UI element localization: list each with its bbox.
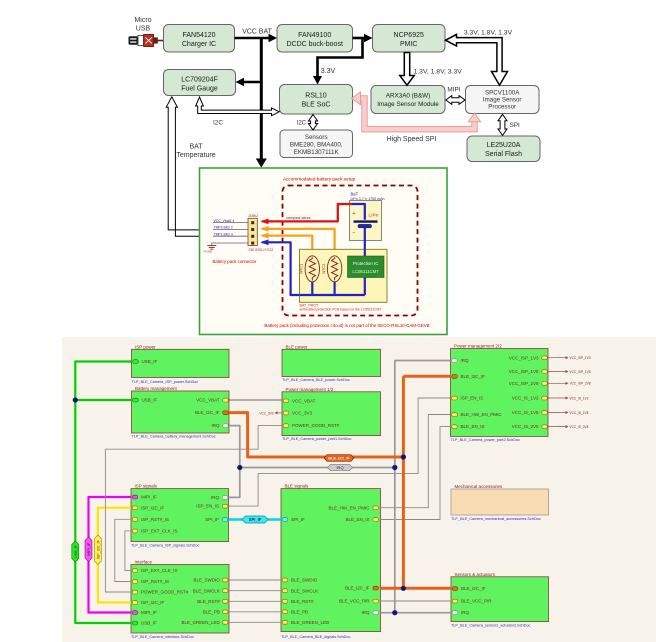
block FAN54120 Charger IC [164, 25, 235, 53]
label BAT_PROT [300, 303, 382, 311]
port BLE_RST# on BLE signals [282, 599, 314, 604]
svg-text:Fuel Gauge: Fuel Gauge [181, 86, 218, 93]
svg-text:Sensors & actuators: Sensors & actuators [455, 572, 496, 577]
svg-text:LC709204F: LC709204F [181, 77, 218, 84]
port IRQ on Battery management [211, 423, 228, 428]
net label hexagon IRQ [328, 464, 353, 470]
svg-text:Processor: Processor [488, 104, 516, 111]
svg-text:ISP_I2C_IF: ISP_I2C_IF [141, 505, 165, 510]
svg-text:LiPo: LiPo [369, 213, 379, 218]
port ISP_I2C_IF on Interface [132, 600, 164, 605]
svg-text:IRQ: IRQ [211, 495, 220, 500]
block LE25U20A Serial Flash [467, 136, 540, 162]
arrow FAN49100 to NCP6925 [353, 34, 373, 42]
svg-text:ISP_I2C_IF: ISP_I2C_IF [141, 600, 165, 605]
block RSL10 BLE SoC [280, 85, 353, 115]
block LC709204F Fuel Gauge [164, 70, 236, 96]
net label hexagon SPI_IF [242, 516, 268, 523]
svg-text:1.3V, 1.8V, 3.3V: 1.3V, 1.8V, 3.3V [414, 69, 463, 76]
port VCC_VBAT on Power management 1/2 [283, 398, 315, 403]
svg-text:embedded protection PCB based: embedded protection PCB based on the LC0… [300, 308, 382, 312]
battery pack outer green box [200, 168, 448, 335]
svg-text:BLE_VCC_PIR: BLE_VCC_PIR [339, 599, 370, 604]
svg-text:Power management 2/2: Power management 2/2 [454, 344, 502, 349]
port BLE_EN_IS on Power management 2/2 [452, 424, 485, 429]
svg-text:BLE SoC: BLE SoC [302, 102, 331, 109]
pink arrow High Speed SPI [352, 92, 481, 129]
port VCC_ISP_2V8 on Power management 2/2 [509, 381, 548, 386]
junction dot BLE_I2C_IF bottom [401, 586, 406, 591]
wire ISP_EN_IS [229, 398, 451, 506]
sheet symbol BLE signals [281, 484, 381, 639]
svg-text:VCC_VBAT: VCC_VBAT [292, 398, 316, 403]
orange wire thermistor NTC1 [260, 233, 312, 256]
svg-text:ISP_EXT_CLK_IS: ISP_EXT_CLK_IS [141, 568, 178, 573]
port IRQ on Sensors and actuators [452, 610, 469, 615]
svg-text:MIPI_IF: MIPI_IF [87, 542, 91, 556]
dashed battery pack boundary [283, 186, 418, 316]
svg-text:BLE power: BLE power [286, 344, 309, 349]
svg-text:VCC_ISP_1V3: VCC_ISP_1V3 [509, 355, 539, 360]
svg-text:PGND: PGND [204, 250, 214, 254]
svg-text:VCC_ISP_2V8: VCC_ISP_2V8 [509, 381, 539, 386]
wire IRQ main vertical [394, 361, 396, 613]
port USB_IF on ISP power [133, 359, 158, 364]
svg-text:TMP1 BK2 3: TMP1 BK2 3 [214, 233, 233, 237]
svg-text:VCC_IS_1V8: VCC_IS_1V8 [512, 410, 539, 415]
svg-text:BLE_SWCLK: BLE_SWCLK [291, 588, 318, 593]
svg-text:LC05111CMT: LC05111CMT [352, 269, 379, 274]
micro USB connector icon [129, 34, 158, 46]
wire USB to charger [158, 40, 164, 42]
svg-text:ARX3A0 (B&W): ARX3A0 (B&W) [386, 93, 430, 100]
svg-text:IRQ: IRQ [461, 358, 470, 363]
svg-text:TLP_BLE_Camera_interface.SchDo: TLP_BLE_Camera_interface.SchDoc [131, 635, 194, 639]
svg-text:EKMB1307111K: EKMB1307111K [294, 149, 340, 156]
power net flag VCC_ISP_1V3 [548, 356, 591, 360]
port BLE_I2C_IF on Power management 2/2 [452, 374, 486, 379]
svg-text:+: + [353, 211, 356, 217]
wire BLE_EN_IS [381, 427, 451, 520]
svg-text:MIPI_IF: MIPI_IF [141, 610, 157, 615]
block NCP6925 PMIC [373, 25, 446, 53]
svg-text:BLE signals: BLE signals [285, 484, 310, 489]
arrow into fuel gauge [236, 78, 262, 86]
net stub wire pin1 [213, 222, 248, 224]
port IRQ on ISP signals [211, 495, 228, 500]
svg-text:BLE_PB: BLE_PB [291, 610, 308, 615]
svg-text:ISP power: ISP power [135, 344, 156, 349]
svg-text:TLP_BLE_Camera_ISP_signals.Sch: TLP_BLE_Camera_ISP_signals.SchDoc [131, 543, 199, 547]
svg-text:FAN49100: FAN49100 [298, 32, 331, 39]
svg-text:MIPI_IF: MIPI_IF [141, 495, 157, 500]
svg-text:TLP_BLE_Camera_power_part1.Sch: TLP_BLE_Camera_power_part1.SchDoc [282, 437, 352, 441]
svg-text:NCP6925: NCP6925 [394, 32, 424, 39]
svg-text:Image Sensor Module: Image Sensor Module [377, 101, 439, 108]
block FAN49100 DCDC buck-boost [277, 25, 353, 53]
battery pack connector J1BK2 [248, 214, 273, 252]
svg-text:TLP_BLE_Camera_mechanical_acce: TLP_BLE_Camera_mechanical_accessories.Sc… [451, 517, 541, 521]
junction dot IRQ bus left [237, 465, 242, 470]
svg-text:NTC1: NTC1 [299, 264, 304, 274]
svg-text:Image Sensor: Image Sensor [483, 97, 522, 104]
wire BLE_I2C_IF bottom row [381, 587, 452, 590]
hollow arrow SPI [498, 114, 507, 135]
protection IC LC05111CMT [348, 256, 385, 278]
port POWER_GOOD_RST# on Power management 1/2 [283, 423, 340, 428]
svg-text:POWER_GOOD_RST#: POWER_GOOD_RST# [141, 590, 189, 595]
svg-text:Serial Flash: Serial Flash [485, 151, 522, 158]
junction dot BLE_I2C_IF mid [401, 454, 406, 459]
svg-text:3.3V: 3.3V [321, 68, 336, 75]
block Sensors BME280 BMA400 EKMB1307111K [280, 130, 353, 158]
svg-text:DCDC buck-boost: DCDC buck-boost [286, 41, 342, 48]
svg-text:TLP_BLE_Camera_ISP_power.SchDo: TLP_BLE_Camera_ISP_power.SchDoc [132, 380, 199, 384]
arrow VCC BAT into battery pack [256, 159, 267, 168]
blue wire battery negative return [260, 239, 300, 295]
svg-text:ISP_EXT_CLK_IS: ISP_EXT_CLK_IS [141, 529, 178, 534]
port SPI_IF on BLE signals [282, 517, 305, 522]
wire BLE_I2C_IF orange main vertical [402, 376, 405, 588]
net label hexagon ISP_I2C_IF [94, 535, 101, 565]
ground symbol PGND [204, 246, 217, 254]
svg-text:VCC_3V3: VCC_3V3 [259, 411, 273, 415]
hollow arrow MIPI [446, 96, 465, 105]
block ARX3A0 Image Sensor Module [371, 86, 445, 114]
sheet symbol Mechanical accessories [451, 484, 549, 521]
wire BLE_I2C_IF orange riser from battery management [229, 413, 403, 457]
svg-text:BaT: BaT [351, 191, 359, 196]
svg-text:VCC_ISP_2V8: VCC_ISP_2V8 [570, 382, 591, 386]
wire BLE_PB [229, 611, 281, 613]
hollow arrow I2C RSL10 to Sensors [308, 115, 317, 131]
svg-text:High Speed SPI: High Speed SPI [387, 136, 437, 143]
port VCC_IS_1V2 on Power management 2/2 [512, 396, 548, 401]
junction dot IRQ bus right [392, 465, 397, 470]
svg-text:BLE_GREEN_LED: BLE_GREEN_LED [291, 620, 330, 625]
block SPCV1100A Image Sensor Processor [466, 86, 540, 114]
port BLE_PB on Interface [203, 610, 228, 615]
wire SPI_IF cyan bus [229, 518, 282, 521]
svg-text:Sensors: Sensors [305, 134, 328, 141]
protection circuit yellow board [300, 249, 388, 302]
battery negative stem wire [364, 228, 366, 250]
svg-text:Battery management: Battery management [135, 386, 178, 391]
svg-text:Micro: Micro [134, 17, 151, 24]
svg-text:S50 8981LF/S22: S50 8981LF/S22 [249, 248, 274, 252]
svg-text:I2C: I2C [213, 120, 223, 127]
port ISP_EN_IS on Power management 2/2 [452, 396, 484, 401]
svg-text:BLE_RST#: BLE_RST# [291, 599, 314, 604]
svg-text:LE25U20A: LE25U20A [487, 142, 521, 149]
svg-text:I2C: I2C [297, 121, 307, 127]
svg-text:VCC_3V3: VCC_3V3 [292, 411, 313, 416]
battery cell box [350, 201, 382, 241]
svg-text:BLE_HW_EN_PMIC: BLE_HW_EN_PMIC [328, 505, 370, 510]
svg-text:Mechanical accessories: Mechanical accessories [455, 484, 504, 489]
svg-text:IRQ: IRQ [336, 465, 343, 470]
port BLE_PB on BLE signals [282, 610, 308, 615]
svg-text:BLE_SWDIO: BLE_SWDIO [194, 578, 221, 583]
port BLE_SWCLK on BLE signals [282, 588, 318, 593]
svg-text:BLE_EN_IS: BLE_EN_IS [461, 424, 485, 429]
wire IRQ battery management riser [229, 426, 240, 498]
net label hexagon BLE_I2C_IF [324, 455, 354, 462]
svg-text:Power management 1/2: Power management 1/2 [286, 387, 334, 392]
svg-text:TLP_BLE_Camera_power_part2.Sch: TLP_BLE_Camera_power_part2.SchDoc [451, 438, 521, 442]
svg-text:Battery pack connector: Battery pack connector [213, 259, 258, 264]
wire ISP_RST#_IS [115, 519, 131, 581]
junction dot USB_IF [73, 397, 78, 402]
svg-text:Temperature: Temperature [176, 152, 215, 159]
power net flag VCC_IS_2V8 [548, 425, 589, 429]
svg-text:VCC_IS_2V8: VCC_IS_2V8 [570, 425, 589, 429]
svg-text:J1BK2: J1BK2 [248, 214, 258, 218]
power net flag VCC_IS_1V8 [548, 411, 589, 415]
svg-text:BLE_SWDIO: BLE_SWDIO [291, 578, 318, 583]
port ISP_RST#_IS on ISP signals [132, 517, 169, 522]
wire BLE_VCC_PIR [381, 600, 452, 602]
wire BLE_RST# [229, 600, 281, 602]
svg-text:TMP2 BK2 2: TMP2 BK2 2 [214, 226, 233, 230]
svg-text:TLP_BLE_Camera_battery_managem: TLP_BLE_Camera_battery_management.SchDoc [132, 435, 216, 439]
port BLE_RST# on Interface [197, 599, 228, 604]
svg-text:Battery pack (including protec: Battery pack (including protection circu… [264, 323, 429, 328]
port BLE_HW_EN_PMIC on BLE signals [328, 505, 378, 510]
port VCC_ISP_1V8 on Power management 2/2 [509, 369, 548, 374]
port SPI_IF on ISP signals [205, 517, 228, 522]
wire IRQ bottom row [381, 612, 452, 614]
svg-text:USB_IF: USB_IF [142, 359, 158, 364]
svg-text:ISP_RST#_IS: ISP_RST#_IS [141, 579, 169, 584]
junction dot IRQ bottom [392, 610, 397, 615]
sheet symbol Sensors and actuators [451, 572, 549, 628]
svg-text:VCC_IS_2V8: VCC_IS_2V8 [512, 424, 539, 429]
svg-text:ISP signals: ISP signals [135, 484, 158, 489]
svg-text:VCC_ISP_1V3: VCC_ISP_1V3 [570, 356, 591, 360]
svg-text:Interface: Interface [135, 560, 153, 565]
port ISP_I2C_IF on ISP signals [132, 505, 164, 510]
svg-text:crimped wires: crimped wires [286, 215, 311, 220]
power net flag VCC_ISP_2V8 [548, 382, 591, 386]
svg-text:USB_IF: USB_IF [74, 544, 78, 558]
svg-text:VCC_IS_1V2: VCC_IS_1V2 [512, 396, 539, 401]
svg-text:VCC_VBAT: VCC_VBAT [196, 398, 220, 403]
svg-text:SPI_IF: SPI_IF [205, 517, 219, 522]
hollow arrow BAT temperature [166, 97, 201, 237]
power net flag VCC_ISP_1V8 [548, 370, 591, 374]
svg-text:VCC_IS_1V8: VCC_IS_1V8 [570, 411, 589, 415]
wire BLE_GREEN_LED [229, 621, 281, 623]
sheet symbol ISP signals [131, 484, 229, 548]
sheet symbol Power management 2/2 [451, 344, 549, 443]
wire battery negative inside protection board [364, 249, 366, 295]
wire MIPI_IF magenta bus [89, 497, 132, 613]
svg-text:−: − [353, 231, 356, 237]
wire USB_IF branch to battery management [75, 399, 131, 401]
port VCC_3V3 on Power management 1/2 [283, 411, 312, 416]
NTC1 bottom stem wire [311, 282, 313, 295]
label Micro USB [134, 17, 151, 33]
port BLE_GREEN_LED on BLE signals [282, 620, 330, 625]
net label stub VCC_3V3 [259, 411, 282, 415]
thermistor NTC1 [299, 256, 320, 282]
svg-text:SPI_IF: SPI_IF [249, 517, 262, 522]
port POWER_GOOD_RST# on Interface [132, 590, 189, 595]
port USB_IF on Interface [132, 621, 157, 626]
svg-text:BLE_GREEN_LED: BLE_GREEN_LED [182, 620, 221, 625]
wire BLE_HW_EN_PMIC [381, 415, 451, 508]
battery short plate [358, 224, 372, 227]
svg-text:Accommodated battery pack setu: Accommodated battery pack setup [283, 177, 356, 182]
port ISP_EXT_CLK_IS on ISP signals [132, 529, 177, 534]
svg-text:IRQ: IRQ [361, 610, 370, 615]
port ISP_EN_IS on ISP signals [196, 504, 228, 509]
svg-text:SPI_IF: SPI_IF [291, 517, 305, 522]
svg-text:BLE_HW_EN_PMIC: BLE_HW_EN_PMIC [461, 412, 503, 417]
svg-text:BLE_VCC_PIR: BLE_VCC_PIR [461, 599, 492, 604]
net stub wire pin2 [213, 228, 248, 230]
battery long plate [354, 220, 378, 222]
wire IRQ horizontal bus [240, 467, 395, 469]
svg-text:ISP_I2C_IF: ISP_I2C_IF [96, 539, 100, 559]
block arrow NCP6925 to ARX3A0 [400, 53, 414, 86]
svg-text:BLE_I2C_IF: BLE_I2C_IF [461, 586, 486, 591]
arrow 3.3V to RSL10 [313, 39, 363, 85]
svg-text:SPI: SPI [510, 122, 521, 129]
wire VCC_VBAT [229, 399, 282, 401]
svg-text:NTC2: NTC2 [321, 264, 326, 274]
svg-text:VCC_ISP_1V8: VCC_ISP_1V8 [509, 369, 539, 374]
port ISP_RST#_IS on Interface [132, 579, 169, 584]
port BLE_EN_IS on BLE signals [345, 517, 378, 522]
svg-text:TLP_BLE_Camera_BLE_signals.Sch: TLP_BLE_Camera_BLE_signals.SchDoc [281, 635, 351, 639]
port BLE_I2C_IF on Battery management [195, 410, 228, 415]
sheet symbol Power management 1/2 [282, 387, 381, 441]
svg-text:MIPI: MIPI [447, 87, 460, 94]
sheet symbol Interface [131, 560, 229, 640]
sheet symbol BLE power [282, 344, 381, 382]
port ISP_EXT_CLK_IS on Interface [132, 568, 177, 573]
svg-text:VCC_IS_1V2: VCC_IS_1V2 [570, 396, 589, 400]
svg-text:VCC_ISP_1V8: VCC_ISP_1V8 [570, 370, 591, 374]
wire BLE_SWDIO [229, 579, 281, 581]
sheet symbol ISP power [132, 344, 230, 384]
svg-text:3.3V, 1.8V, 1.3V: 3.3V, 1.8V, 1.3V [464, 30, 513, 37]
label BaT LiPo 3.7V 1700mAh [351, 191, 385, 201]
svg-text:USB_IF: USB_IF [142, 398, 158, 403]
wire VCC BAT vertical drop [260, 38, 263, 160]
net label hexagon MIPI_IF [85, 537, 92, 562]
port BLE_SWDIO on Interface [194, 578, 228, 583]
svg-text:BLE_I2C_IF: BLE_I2C_IF [195, 410, 220, 415]
label BAT Temperature [176, 144, 215, 160]
svg-text:IRQ: IRQ [461, 610, 470, 615]
svg-text:BLE_SWCLK: BLE_SWCLK [193, 588, 220, 593]
power net flag VCC_IS_1V2 [548, 396, 589, 400]
port VCC_ISP_1V3 on Power management 2/2 [509, 355, 548, 360]
wire POWER_GOOD_RST# [105, 426, 282, 592]
svg-text:ISP_EN_IS: ISP_EN_IS [461, 396, 484, 401]
svg-text:VCC BAT: VCC BAT [242, 29, 273, 36]
svg-text:FAN54120: FAN54120 [182, 32, 215, 39]
svg-text:ISP_EN_IS: ISP_EN_IS [196, 504, 219, 509]
port IRQ on BLE signals [361, 610, 378, 615]
svg-text:TLP_BLE_Camera_BLE_power.SchDo: TLP_BLE_Camera_BLE_power.SchDoc [282, 378, 350, 382]
wire ISP_EXT_CLK_IS [125, 531, 131, 571]
red wire crimped positive [260, 204, 352, 224]
port VCC_IS_1V8 on Power management 2/2 [512, 410, 548, 415]
port BLE_GREEN_LED on Interface [182, 620, 228, 625]
thermistor NTC2 [321, 256, 342, 282]
svg-text:TLP_BLE_Camera_sensors_actuato: TLP_BLE_Camera_sensors_actuators.SchDoc [451, 623, 530, 627]
svg-text:IRQ: IRQ [211, 423, 220, 428]
wire BLE_I2C_IF to power management 2/2 [403, 375, 450, 378]
svg-text:BME280, BMA400,: BME280, BMA400, [290, 142, 343, 149]
port BLE_I2C_IF on BLE signals [345, 586, 379, 591]
port BLE_I2C_IF on Sensors and actuators [452, 586, 486, 591]
svg-text:USB_IF: USB_IF [141, 621, 157, 626]
svg-text:Charger IC: Charger IC [182, 41, 216, 48]
wire BLE_SWCLK [229, 590, 281, 592]
port IRQ on Power management 2/2 [452, 358, 469, 363]
port VCC_IS_2V8 on Power management 2/2 [512, 424, 548, 429]
svg-text:SPCV1100A: SPCV1100A [485, 90, 520, 97]
sheet symbol Battery management [132, 386, 230, 439]
port MIPI_IF on ISP signals [132, 495, 157, 500]
arrow FAN54120 to FAN49100 [235, 34, 278, 42]
wire IRQ to power management 2/2 [395, 360, 451, 362]
svg-text:BLE_EN_IS: BLE_EN_IS [345, 517, 369, 522]
svg-text:BAT: BAT [189, 144, 203, 151]
port BLE_VCC_PIR on Sensors and actuators [452, 599, 492, 604]
battery positive stem wire [352, 204, 365, 220]
port BLE_HW_EN_PMIC on Power management 2/2 [452, 412, 503, 417]
wire USB_IF green bus [75, 362, 131, 624]
svg-text:BLE_RST#: BLE_RST# [197, 599, 220, 604]
port BLE_SWDIO on BLE signals [282, 578, 318, 583]
port USB_IF on Battery management [133, 398, 158, 403]
svg-text:POWER_GOOD_RST#: POWER_GOOD_RST# [292, 423, 340, 428]
svg-text:BLE_PB: BLE_PB [203, 610, 220, 615]
svg-text:VCC_Vbat1 4: VCC_Vbat1 4 [214, 219, 235, 223]
port MIPI_IF on Interface [132, 610, 157, 615]
schematic sheet background [62, 337, 656, 642]
svg-text:PMIC: PMIC [400, 41, 418, 48]
wire ISP_I2C_IF yellow bus [98, 508, 131, 603]
svg-text:ISP_RST#_IS: ISP_RST#_IS [141, 517, 169, 522]
svg-text:Protection IC: Protection IC [353, 261, 378, 266]
port VCC_VBAT on Battery management [196, 398, 228, 403]
svg-text:RSL10: RSL10 [305, 93, 327, 100]
orange wire thermistor NTC2 [260, 226, 334, 256]
port BLE_SWCLK on Interface [193, 588, 228, 593]
wire protection board bottom rail [300, 294, 365, 296]
port BLE_VCC_PIR on BLE signals [339, 599, 379, 604]
svg-text:USB: USB [136, 26, 151, 33]
hollow arrow I2C fuel gauge to RSL10 [196, 97, 280, 116]
block arrow power rails NCP6925 to SPCV1100A [446, 34, 508, 85]
svg-text:BLE_I2C_IF: BLE_I2C_IF [461, 374, 486, 379]
svg-text:BLE_I2C_IF: BLE_I2C_IF [345, 586, 370, 591]
net stub wire pin3 [213, 235, 248, 237]
net stub wire pin4 to ground [212, 243, 248, 246]
net label hexagon USB_IF [72, 541, 79, 562]
svg-text:BLE_I2C_IF: BLE_I2C_IF [328, 456, 350, 461]
NTC2 bottom stem wire [334, 282, 336, 295]
